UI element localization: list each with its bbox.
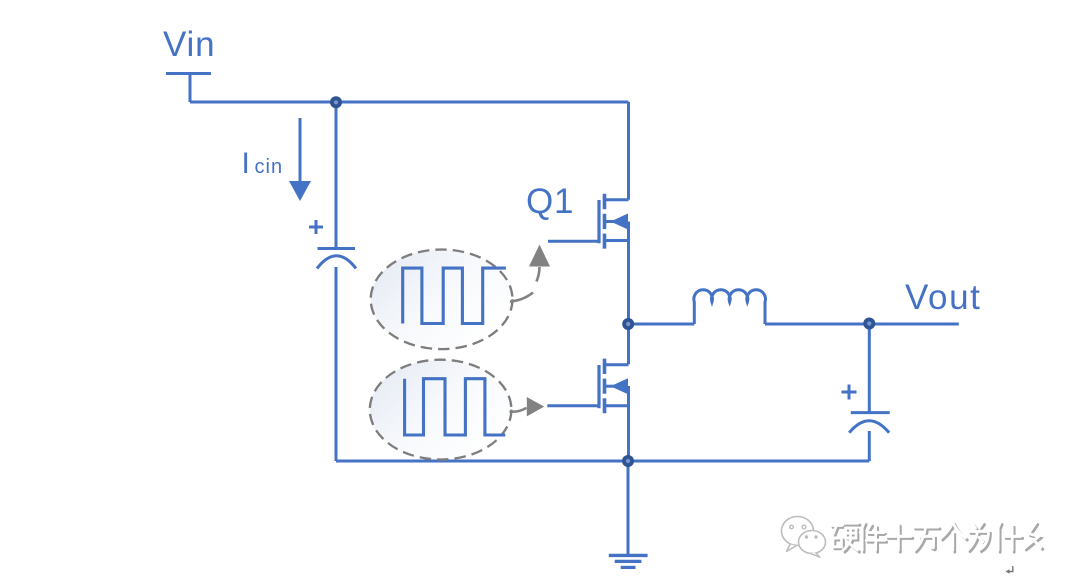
svg-text:Vin: Vin xyxy=(163,25,215,64)
svg-text:cin: cin xyxy=(255,156,284,178)
svg-text:I: I xyxy=(242,147,250,180)
svg-text:Q1: Q1 xyxy=(526,182,574,221)
svg-text:Vout: Vout xyxy=(905,278,981,317)
